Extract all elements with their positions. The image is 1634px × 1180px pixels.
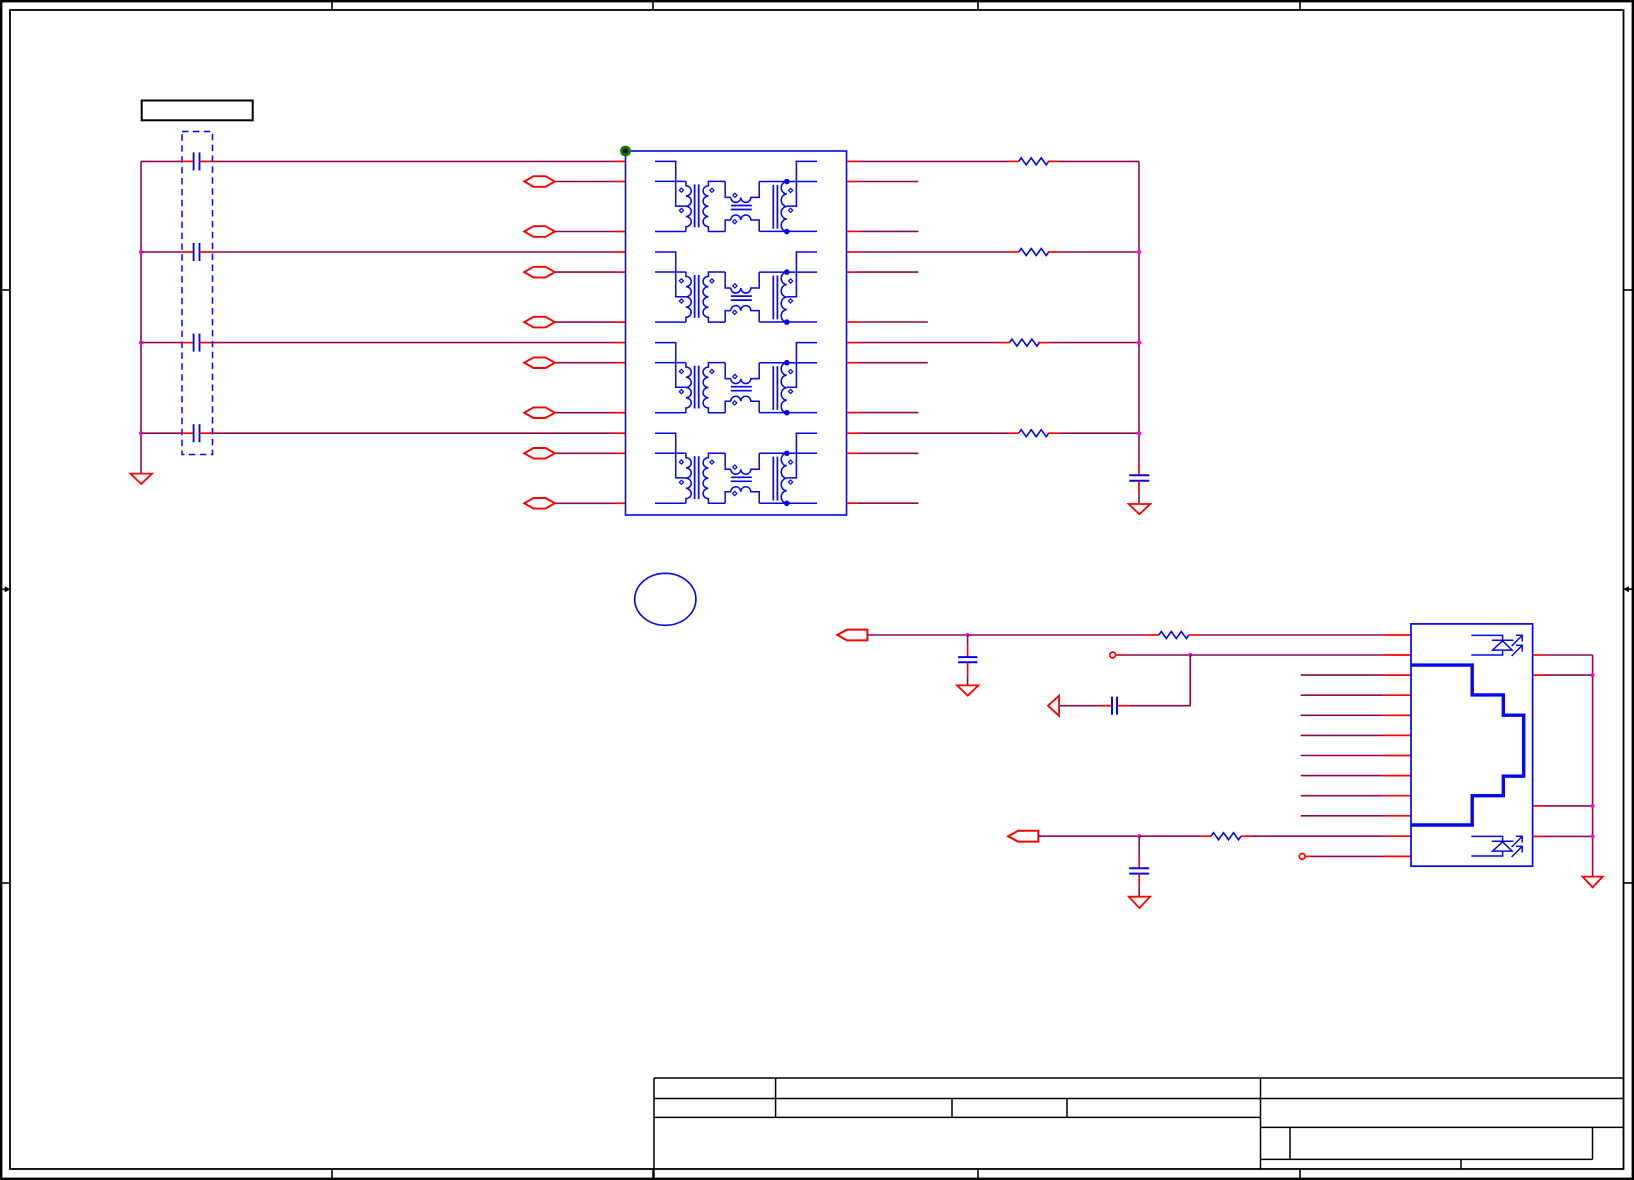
pin J1-1 (1383, 634, 1411, 636)
wire J1 right 2 (1544, 674, 1593, 676)
wire P11 to junction (1038, 835, 1139, 837)
capacitor C5 lead top (1138, 463, 1140, 475)
junction node C8 (1188, 653, 1192, 657)
wire stub 3b (857, 412, 918, 414)
port P3 (524, 267, 555, 278)
capacitor C6 lead bottom (967, 662, 969, 675)
pin T module right stub 4b (847, 502, 858, 504)
wire T module to R2 (857, 251, 1008, 253)
pin J1-10 (1383, 815, 1411, 817)
capacitor C3 lead right (200, 342, 211, 344)
wire stub 1b (857, 230, 918, 232)
transformer module body outline (626, 151, 847, 515)
wire stub 4b (857, 502, 918, 504)
capacitor C7 lead top (1138, 856, 1140, 868)
pin T module right ct row 4 (847, 432, 858, 434)
wire cap row 4 left (141, 432, 183, 434)
pin T module right ct row 2 (847, 251, 858, 253)
resistor R6 (1211, 833, 1241, 840)
pin J1-12b (1383, 855, 1411, 857)
pin T module port row 2 (615, 231, 626, 233)
resistor R6 lead right (1241, 835, 1252, 837)
wire cap row 3 right (210, 342, 615, 344)
port P7 (524, 448, 555, 459)
wire R3 to bus (1048, 342, 1139, 344)
pin T module port row 5 (615, 362, 626, 364)
pin J1 right 1 (1533, 654, 1544, 656)
resistor R2 lead right (1048, 251, 1058, 253)
capacitor C4 lead right (200, 432, 211, 434)
ellipse marker (635, 573, 696, 625)
capacitor C5 lead bottom (1138, 481, 1140, 493)
title block (654, 1078, 1624, 1178)
pin T module left row 2 (615, 251, 626, 253)
pin T module port row 4 (615, 321, 626, 323)
capacitor C3 (193, 334, 195, 352)
wire J1 right 1 (1544, 654, 1593, 656)
port P5 (524, 357, 555, 368)
wire C7 to ground (1138, 887, 1140, 897)
wire J1 stub pin 8 (1301, 775, 1383, 777)
junction left bus node 2 (139, 250, 143, 254)
port P6 (524, 407, 555, 418)
resistor R3 lead right (1038, 342, 1048, 344)
pin T module port row 3 (615, 271, 626, 273)
pin J1-6 (1383, 734, 1411, 736)
pin J1 right 3 (1533, 805, 1544, 807)
resistor R3 (1009, 339, 1039, 346)
sheet zone ticks top/bottom (332, 1, 1300, 1179)
pin T module right stub 1b (847, 230, 858, 232)
wire J1 stub pin 3 (1301, 674, 1383, 676)
pin J1-2 stub (1116, 654, 1123, 656)
wire cap row 4 right (210, 432, 615, 434)
wire junction to R6 (1139, 835, 1200, 837)
resistor R1 lead right (1048, 160, 1058, 162)
capacitor C1 lead right (200, 160, 211, 162)
wire J1 stub pin 6 (1301, 734, 1383, 736)
wire stub 2a (857, 271, 918, 273)
capacitor C5 (1129, 474, 1149, 476)
pin T module right ct row 1 (847, 160, 858, 162)
wire port P2 (555, 231, 615, 233)
pin T module port row 8 (615, 502, 626, 504)
port arrow P10 (1048, 696, 1059, 716)
wire cap row 1 right (210, 160, 615, 162)
ground GND left (130, 474, 152, 484)
resistor R2 (1019, 249, 1049, 256)
junction shield node 3 (1591, 834, 1595, 838)
pin T module port row 6 (615, 412, 626, 414)
pin T module right stub 3b (847, 412, 858, 414)
capacitor C8 lead left (1099, 705, 1111, 707)
wire R1 to bus (1058, 160, 1139, 162)
pin T module right ct row 3 (847, 342, 858, 344)
capacitor bank dashed outline (182, 132, 213, 455)
capacitor C6 lead top (967, 645, 969, 657)
pin J1-2b (1383, 654, 1411, 656)
ground GND shield (1583, 877, 1603, 888)
wire port P5 (555, 362, 615, 364)
capacitor C4 lead left (183, 432, 193, 434)
wire port P4 (555, 321, 615, 323)
port P4 (524, 317, 555, 328)
wire junction to R5 (968, 634, 1147, 636)
pin T module right stub 4a (847, 452, 858, 454)
resistor R3 lead left (999, 342, 1009, 344)
wire J1-2 to junction (1122, 654, 1190, 656)
wire stub 3a (857, 362, 928, 364)
transformer channel 4 (655, 433, 817, 506)
port P2 (524, 226, 555, 237)
pin J1-7 (1383, 755, 1411, 757)
resistor R4 lead left (1009, 432, 1019, 434)
junction left bus node 4 (139, 431, 143, 435)
connector J1 jack profile (1411, 665, 1524, 825)
wire R6 to J1 pin11 (1252, 835, 1384, 837)
pin T module port row 7 (615, 452, 626, 454)
capacitor C3 lead left (183, 342, 193, 344)
pin T module right stub 2b (847, 321, 858, 323)
wire P9 to junction (867, 634, 967, 636)
pin J1-9 (1383, 795, 1411, 797)
wire C8 to port (1059, 705, 1099, 707)
junction right bus node 1 (1137, 250, 1141, 254)
junction right bus node 2 (1137, 340, 1141, 344)
resistor R1 (1019, 158, 1049, 165)
junction node C6 (966, 633, 970, 637)
pin T module left row 1 (615, 160, 626, 162)
transformer channel 1 (655, 161, 817, 234)
wire C6 drop (967, 635, 969, 645)
wire cap row 3 left (141, 342, 183, 344)
wire cap row 1 left (141, 160, 183, 162)
wire T module to R4 (857, 432, 1008, 434)
capacitor C8 lead right (1117, 705, 1129, 707)
pin J1 right 4 (1533, 835, 1544, 837)
capacitor C1 lead left (183, 160, 193, 162)
port P1 (524, 176, 555, 187)
wire R2 to bus (1058, 251, 1139, 253)
transformer channel 3 (655, 343, 817, 416)
wire cap row 2 right (210, 251, 615, 253)
resistor R5 lead right (1189, 634, 1200, 636)
pin J1-11 (1383, 835, 1411, 837)
pin J1-8 (1383, 775, 1411, 777)
pin J1-4 (1383, 694, 1411, 696)
sheet center arrow right (1628, 588, 1634, 590)
wire C8 drop (1129, 655, 1190, 706)
resistor R4 lead right (1048, 432, 1058, 434)
junction shield node 2 (1591, 804, 1595, 808)
ground GND C6 (957, 685, 978, 695)
wire cap row 2 left (141, 251, 183, 253)
no-ERC marker green dot (620, 146, 631, 157)
wire port P6 (555, 412, 615, 414)
resistor R5 lead left (1146, 634, 1159, 636)
resistor R5 (1159, 632, 1189, 639)
transformer channel 2 (655, 252, 817, 325)
wire R5 to J1 pin1 (1199, 634, 1383, 636)
pin T module right stub 3a (847, 362, 858, 364)
wire J1 stub pin 5 (1301, 714, 1383, 716)
pin T module port row 1 (615, 181, 626, 183)
wire C6 to ground (967, 675, 969, 685)
wire stub 1a (857, 181, 918, 183)
wire port P7 (555, 452, 615, 454)
pin T module right stub 1a (847, 181, 858, 183)
capacitor C7 lead bottom (1138, 874, 1140, 887)
wire right shield bus (1592, 655, 1594, 877)
capacitor C8 (1111, 697, 1113, 715)
wire J1 right 3 (1544, 805, 1593, 807)
resistor R2 lead left (1009, 251, 1019, 253)
wire J1 stub pin 10 (1301, 815, 1383, 817)
pin T module left row 3 (615, 342, 626, 344)
wire C7 drop (1138, 836, 1140, 856)
pin J1-3 (1383, 674, 1411, 676)
LED D1 (link) (1471, 635, 1523, 656)
capacitor C2 lead left (183, 251, 193, 253)
capacitor C2 (193, 243, 195, 261)
wire port P8 (555, 502, 615, 504)
pin J1-12 stub (1305, 855, 1311, 857)
port P9 (837, 630, 867, 641)
capacitor C1 (193, 152, 195, 170)
connector J1 body outline (1411, 624, 1533, 866)
capacitor C7 (1129, 867, 1149, 869)
wire T module to R3 (857, 342, 999, 344)
port P8 (524, 498, 555, 509)
wire J1 stub pin 4 (1301, 694, 1383, 696)
sheet center arrow left (0, 588, 10, 590)
junction node C7 (1137, 834, 1141, 838)
ground GND right bus (1129, 504, 1151, 514)
ground GND C7 (1129, 897, 1150, 908)
wire J1 right 4 (1544, 835, 1593, 837)
wire J1 stub pin 9 (1301, 795, 1383, 797)
junction right bus node 3 (1137, 431, 1141, 435)
wire R4 to bus (1058, 432, 1139, 434)
resistor R1 lead left (1009, 160, 1019, 162)
pin J1 right 2 (1533, 674, 1544, 676)
wire port P3 (555, 271, 615, 273)
LED D2 (activity) (1471, 836, 1523, 857)
wire J1 stub pin 7 (1301, 755, 1383, 757)
pin J1-5 (1383, 714, 1411, 716)
no-connect circle pin J1-12 (1299, 854, 1305, 860)
port P11 (1008, 831, 1038, 842)
wire stub 2b (857, 321, 928, 323)
sheet zone ticks left/right (1, 290, 1633, 883)
wire C5 to ground (1138, 492, 1140, 504)
wire left GND bus (140, 161, 142, 473)
wire port P1 (555, 181, 615, 183)
resistor R6 lead left (1201, 835, 1211, 837)
wire stub 4a (857, 452, 918, 454)
capacitor C6 (958, 656, 977, 658)
junction left bus node 3 (139, 341, 143, 345)
designator label box (142, 101, 253, 121)
wire junction to J1 pin2 (1190, 654, 1383, 656)
pin T module right stub 2a (847, 271, 858, 273)
no-connect circle pin J1-2 (1110, 652, 1116, 658)
pin T module left row 4 (615, 432, 626, 434)
wire T module to R1 (857, 160, 1008, 162)
capacitor C4 (193, 424, 195, 442)
wire right bus vertical (1138, 161, 1140, 463)
capacitor C2 lead right (200, 251, 211, 253)
junction shield node 1 (1591, 673, 1595, 677)
wire J1-12 (1312, 855, 1384, 857)
resistor R4 (1019, 430, 1049, 437)
